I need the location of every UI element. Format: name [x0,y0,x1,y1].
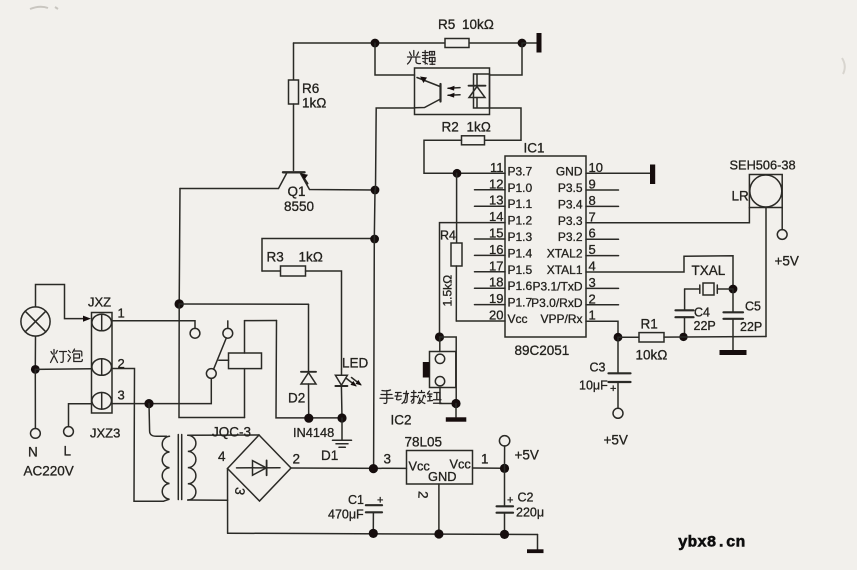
svg-text:XTAL2: XTAL2 [547,247,583,261]
svg-text:P3.4: P3.4 [558,197,583,211]
svg-text:18: 18 [489,275,503,290]
node 78L05 pin2 rail junction [434,529,443,538]
svg-text:+5V: +5V [515,448,539,463]
ground below button [455,404,457,418]
svg-text:LR: LR [732,189,750,204]
svg-text:P1.4: P1.4 [508,246,533,260]
svg-text:16: 16 [489,242,503,257]
IC U1 89C2051 body [505,156,586,337]
resistor R5 [445,39,469,48]
resistor R3 [281,266,306,276]
svg-text:IC1: IC1 [524,141,545,156]
relay contact pole C [206,369,216,379]
node C4 rail junction [679,333,687,341]
node LED bottom junction [337,413,346,422]
svg-text:8550: 8550 [284,199,314,214]
wire junction to transformer primary top [149,404,167,437]
svg-text:P3.5: P3.5 [558,181,583,195]
svg-text:+5V: +5V [775,254,799,269]
svg-text:P1.5: P1.5 [508,263,533,277]
pin 2 stub [586,304,619,306]
svg-text:19: 19 [489,291,503,306]
svg-text:P1.3: P1.3 [508,230,533,244]
ground rail end [537,535,539,550]
wire top rail [294,42,524,44]
IC1 left pin numbers [489,160,503,323]
wire R6 to Q1 base [293,104,295,171]
optocoupler inner diode box [474,74,490,108]
node top-right junction [518,39,527,48]
svg-text:P1.2: P1.2 [508,214,533,228]
svg-text:8: 8 [589,193,596,208]
JXZ terminal 2 [92,359,112,376]
svg-text:+: + [610,383,616,395]
svg-text:IN4148: IN4148 [293,425,334,440]
svg-text:3: 3 [589,275,596,290]
svg-text:P3.0/RxD: P3.0/RxD [531,296,583,310]
svg-text:11: 11 [490,160,504,175]
svg-text:C2: C2 [518,491,534,505]
pin 1 stub VPP to R1 [586,321,618,337]
svg-text:13: 13 [489,193,503,208]
svg-text:15: 15 [489,226,503,241]
wire LR right to +5V [781,208,783,230]
wire Q1 left lead down [178,189,181,305]
resistor R6 [289,80,299,104]
svg-text:1kΩ: 1kΩ [467,120,492,135]
svg-text:P1.0: P1.0 [508,181,533,195]
optocoupler phototransistor [415,77,441,108]
svg-text:1: 1 [481,452,489,467]
wire R2 to pin11 net [424,140,462,173]
svg-text:2: 2 [589,291,596,306]
terminal L [64,427,74,437]
svg-text:10kΩ: 10kΩ [636,348,668,363]
pin 14 stub to button net [440,223,506,337]
label 光耦 (optocoupler) [408,51,436,65]
node +5V junction [500,464,509,473]
wire R3 right to LED column [306,271,342,369]
capacitor C3 10uF [609,337,631,408]
node R3 junction [370,235,379,244]
terminal +5V output [499,436,509,446]
svg-text:Q1: Q1 [288,184,306,199]
ground below LED [333,418,352,447]
wire main vertical to C1 [374,190,375,469]
svg-text:AC220V: AC220V [24,464,74,479]
wire R1 left lead [618,336,639,338]
lamp 灯泡 [21,307,50,336]
node JXZ3 junction [144,399,153,408]
node crystal right junction [729,285,738,294]
wire LR bottom to rail [765,208,767,337]
svg-text:1kΩ: 1kΩ [299,250,324,265]
wire L to JXZ pin3 [69,404,92,427]
svg-text:3: 3 [118,388,125,403]
label 手动按钮 (manual button) [380,390,442,404]
wire secondary top to bridge [188,434,259,436]
svg-text:Vcc: Vcc [508,312,528,326]
wire rail R1 to LR drop [664,336,766,339]
pin 20 stub Vcc [456,320,505,322]
pin 6 stub [586,238,619,240]
node button bottom junction [451,399,460,408]
svg-text:1.5kΩ: 1.5kΩ [441,275,455,307]
svg-text:4: 4 [218,449,226,464]
svg-text:R1: R1 [641,317,658,332]
pin 9 stub [586,189,619,191]
wire secondary bottom to bridge left [188,499,228,501]
svg-text:Vcc: Vcc [450,457,472,472]
svg-text:IC2: IC2 [391,413,412,428]
crystal TXAL [685,283,733,295]
svg-text:7: 7 [589,209,596,224]
wire opto collector branch [375,43,415,75]
wire contact B stub [227,321,229,329]
diode D2 IN4148 [301,304,316,418]
node button top junction [435,332,444,341]
svg-text:14: 14 [489,209,503,224]
svg-text:78L05: 78L05 [405,435,443,450]
svg-text:L: L [64,444,72,459]
photoresistor LR SEH506-38 [749,175,782,208]
svg-text:12: 12 [489,176,503,191]
pin 17 stub [475,271,506,273]
bridge inner diode [237,460,281,475]
ground rail bottom [228,533,538,534]
svg-text:+: + [377,495,383,507]
node Q1 base net junction [175,299,184,308]
transformer T1 primary winding [162,436,169,501]
svg-text:TXAL: TXAL [692,263,726,278]
svg-text:20: 20 [489,308,503,323]
wire bridge left corner to ground rail [227,469,229,534]
terminal +5V LR [777,230,787,240]
svg-text:D2: D2 [288,391,305,406]
svg-text:3: 3 [384,452,392,467]
svg-text:22P: 22P [740,320,762,334]
resistor R1 [639,333,664,342]
node C1 top junction [369,464,378,473]
svg-text:5: 5 [589,242,596,257]
pushbutton IC2 body [439,337,441,352]
wire button right bypass [440,337,457,404]
JXZ terminal 1 [92,314,112,331]
svg-text:R6: R6 [302,81,319,96]
svg-text:JQC-3: JQC-3 [212,425,251,440]
wire junction down to relay bottom [179,304,245,418]
transformer secondary winding [188,435,196,500]
svg-text:9: 9 [589,177,596,192]
svg-text:P3.7: P3.7 [508,164,533,178]
svg-text:2: 2 [415,491,430,499]
svg-text:R2: R2 [442,120,459,135]
node Q1 right junction [371,186,380,195]
wire opto diode top to rail [490,43,523,75]
svg-text:D1: D1 [321,448,338,463]
wire bridge output to 78L05 [291,467,407,469]
node R1 left junction [614,333,623,342]
svg-text:P3.3: P3.3 [558,214,583,228]
relay contact pole A [190,328,200,338]
wire junction to D2 top [179,303,308,305]
svg-text:4: 4 [589,259,596,274]
relay coil JQC-3 frame left [244,321,246,418]
svg-text:220μ: 220μ [516,506,544,520]
LED D1 [335,369,347,418]
node C2 rail junction [500,530,509,539]
pin 7 stub to LR sensor [586,208,749,223]
svg-text:2: 2 [293,452,301,467]
relay contact pole B [223,328,233,338]
pin 4 stub XTAL1 to crystal [586,256,733,289]
IC1 left pin names [508,164,533,326]
pin 19 stub [475,304,506,306]
terminal bar GND pin10 [650,165,655,185]
resistor R2 [462,136,485,145]
wire R3 loop top [262,239,375,272]
svg-text:JXZ3: JXZ3 [90,426,120,441]
svg-text:GND: GND [556,164,583,178]
pin 8 stub [586,205,619,207]
svg-text:VPP/Rx: VPP/Rx [540,312,582,326]
svg-text:C5: C5 [745,300,761,314]
svg-text:10μF: 10μF [579,379,608,393]
svg-text:1kΩ: 1kΩ [302,96,327,111]
pin 12 stub [475,189,506,191]
svg-text:6: 6 [589,226,596,241]
pin 5 stub XTAL2 [586,255,619,257]
svg-text:LED: LED [342,356,369,371]
pin 15 stub [475,238,506,240]
scan mark top left [30,7,58,9]
wire JXZ3 to relay pole C [112,378,211,403]
IC1 right pin names [531,164,583,326]
wire to top terminal bar [523,42,537,44]
svg-text:R4: R4 [440,229,456,243]
relay arm tap to coil [219,359,229,361]
pin 3 stub [586,287,619,289]
pin 16 stub [475,254,506,256]
svg-text:P1.7: P1.7 [508,296,533,310]
capacitor C5 22P [724,289,744,337]
resistor R4 with leads [456,173,458,243]
bridge rectifier diamond [228,435,292,501]
relay switch arm [214,338,227,369]
wire R6 drop [293,43,295,80]
svg-text:+: + [507,495,513,507]
wire JXZ1 to relay contact [112,321,195,329]
svg-text:C4: C4 [694,306,710,320]
terminal +5V below C3 [613,408,623,418]
terminal N [31,429,41,439]
svg-text:R3: R3 [267,250,284,265]
wire lamp bottom [34,336,36,369]
optocoupler 光耦 box [415,68,490,115]
svg-text:R5: R5 [438,17,455,32]
LED light arrows [347,378,362,387]
pin 11 stub / node P3.7 [424,172,505,174]
wire opto emitter branch [376,108,415,190]
relay frame right to D2 net [276,321,342,418]
relay coil box [229,353,262,369]
svg-text:ybx8.cn: ybx8.cn [678,534,745,552]
wire N terminal [34,369,36,428]
svg-text:P3.1/TxD: P3.1/TxD [532,279,582,293]
pin 18 stub [475,287,506,289]
JXZ terminal 3 [92,393,112,410]
svg-text:C1: C1 [348,493,364,507]
node lamp N junction [31,365,40,374]
wire lamp to JXZ pin2 [35,368,91,371]
svg-text:XTAL1: XTAL1 [547,263,583,277]
svg-text:SEH506-38: SEH506-38 [730,158,796,173]
svg-text:10kΩ: 10kΩ [462,17,494,32]
optocoupler light arrows [448,86,461,98]
IC1 right pin numbers [589,160,603,323]
svg-text:+5V: +5V [604,433,628,448]
wire opto diode bottom to R2 [485,108,522,140]
node D2 bottom junction [304,414,313,423]
pin 10 stub GND [586,172,651,174]
pin 13 stub [475,205,506,207]
node C1 rail junction [369,529,378,538]
svg-text:17: 17 [489,258,503,273]
optocoupler diode [469,74,486,108]
wire JXZ2 to transformer primary bottom [112,369,164,502]
wire crystal left to C4 [684,289,686,310]
label 灯泡 (lamp) [51,349,83,363]
regulator 78L05 box [407,451,473,485]
svg-text:2: 2 [118,356,125,371]
relay frame top [245,320,277,322]
svg-text:C3: C3 [590,361,606,375]
capacitor C4 22P [676,310,694,337]
ground below C5 [732,337,734,350]
svg-text:P1.6: P1.6 [508,279,533,293]
svg-text:1: 1 [118,306,125,321]
svg-text:P3.2: P3.2 [558,230,583,244]
capacitor C1 470uF [366,505,382,533]
transistor Q1 8550 [180,172,375,190]
wire 78L05 pin2 to rail [438,484,440,534]
node top-left junction [371,39,380,48]
svg-text:22P: 22P [694,319,716,333]
connector JXZ body [92,313,113,414]
arrow into JXZ [83,316,91,322]
transformer core [178,435,181,500]
wire lamp top to JXZ pin1 [36,285,85,319]
svg-text:89C2051: 89C2051 [515,343,570,358]
svg-text:JXZ: JXZ [88,295,111,310]
svg-text:P1.1: P1.1 [508,197,533,211]
capacitor C2 220u [497,468,513,534]
svg-text:N: N [28,445,38,460]
svg-text:10: 10 [589,160,603,175]
terminal bar top right [537,33,542,53]
wire R3 left lead [262,270,281,272]
svg-text:470μF: 470μF [328,508,364,522]
wire 78L05 output [473,467,505,469]
svg-text:1: 1 [589,308,596,323]
